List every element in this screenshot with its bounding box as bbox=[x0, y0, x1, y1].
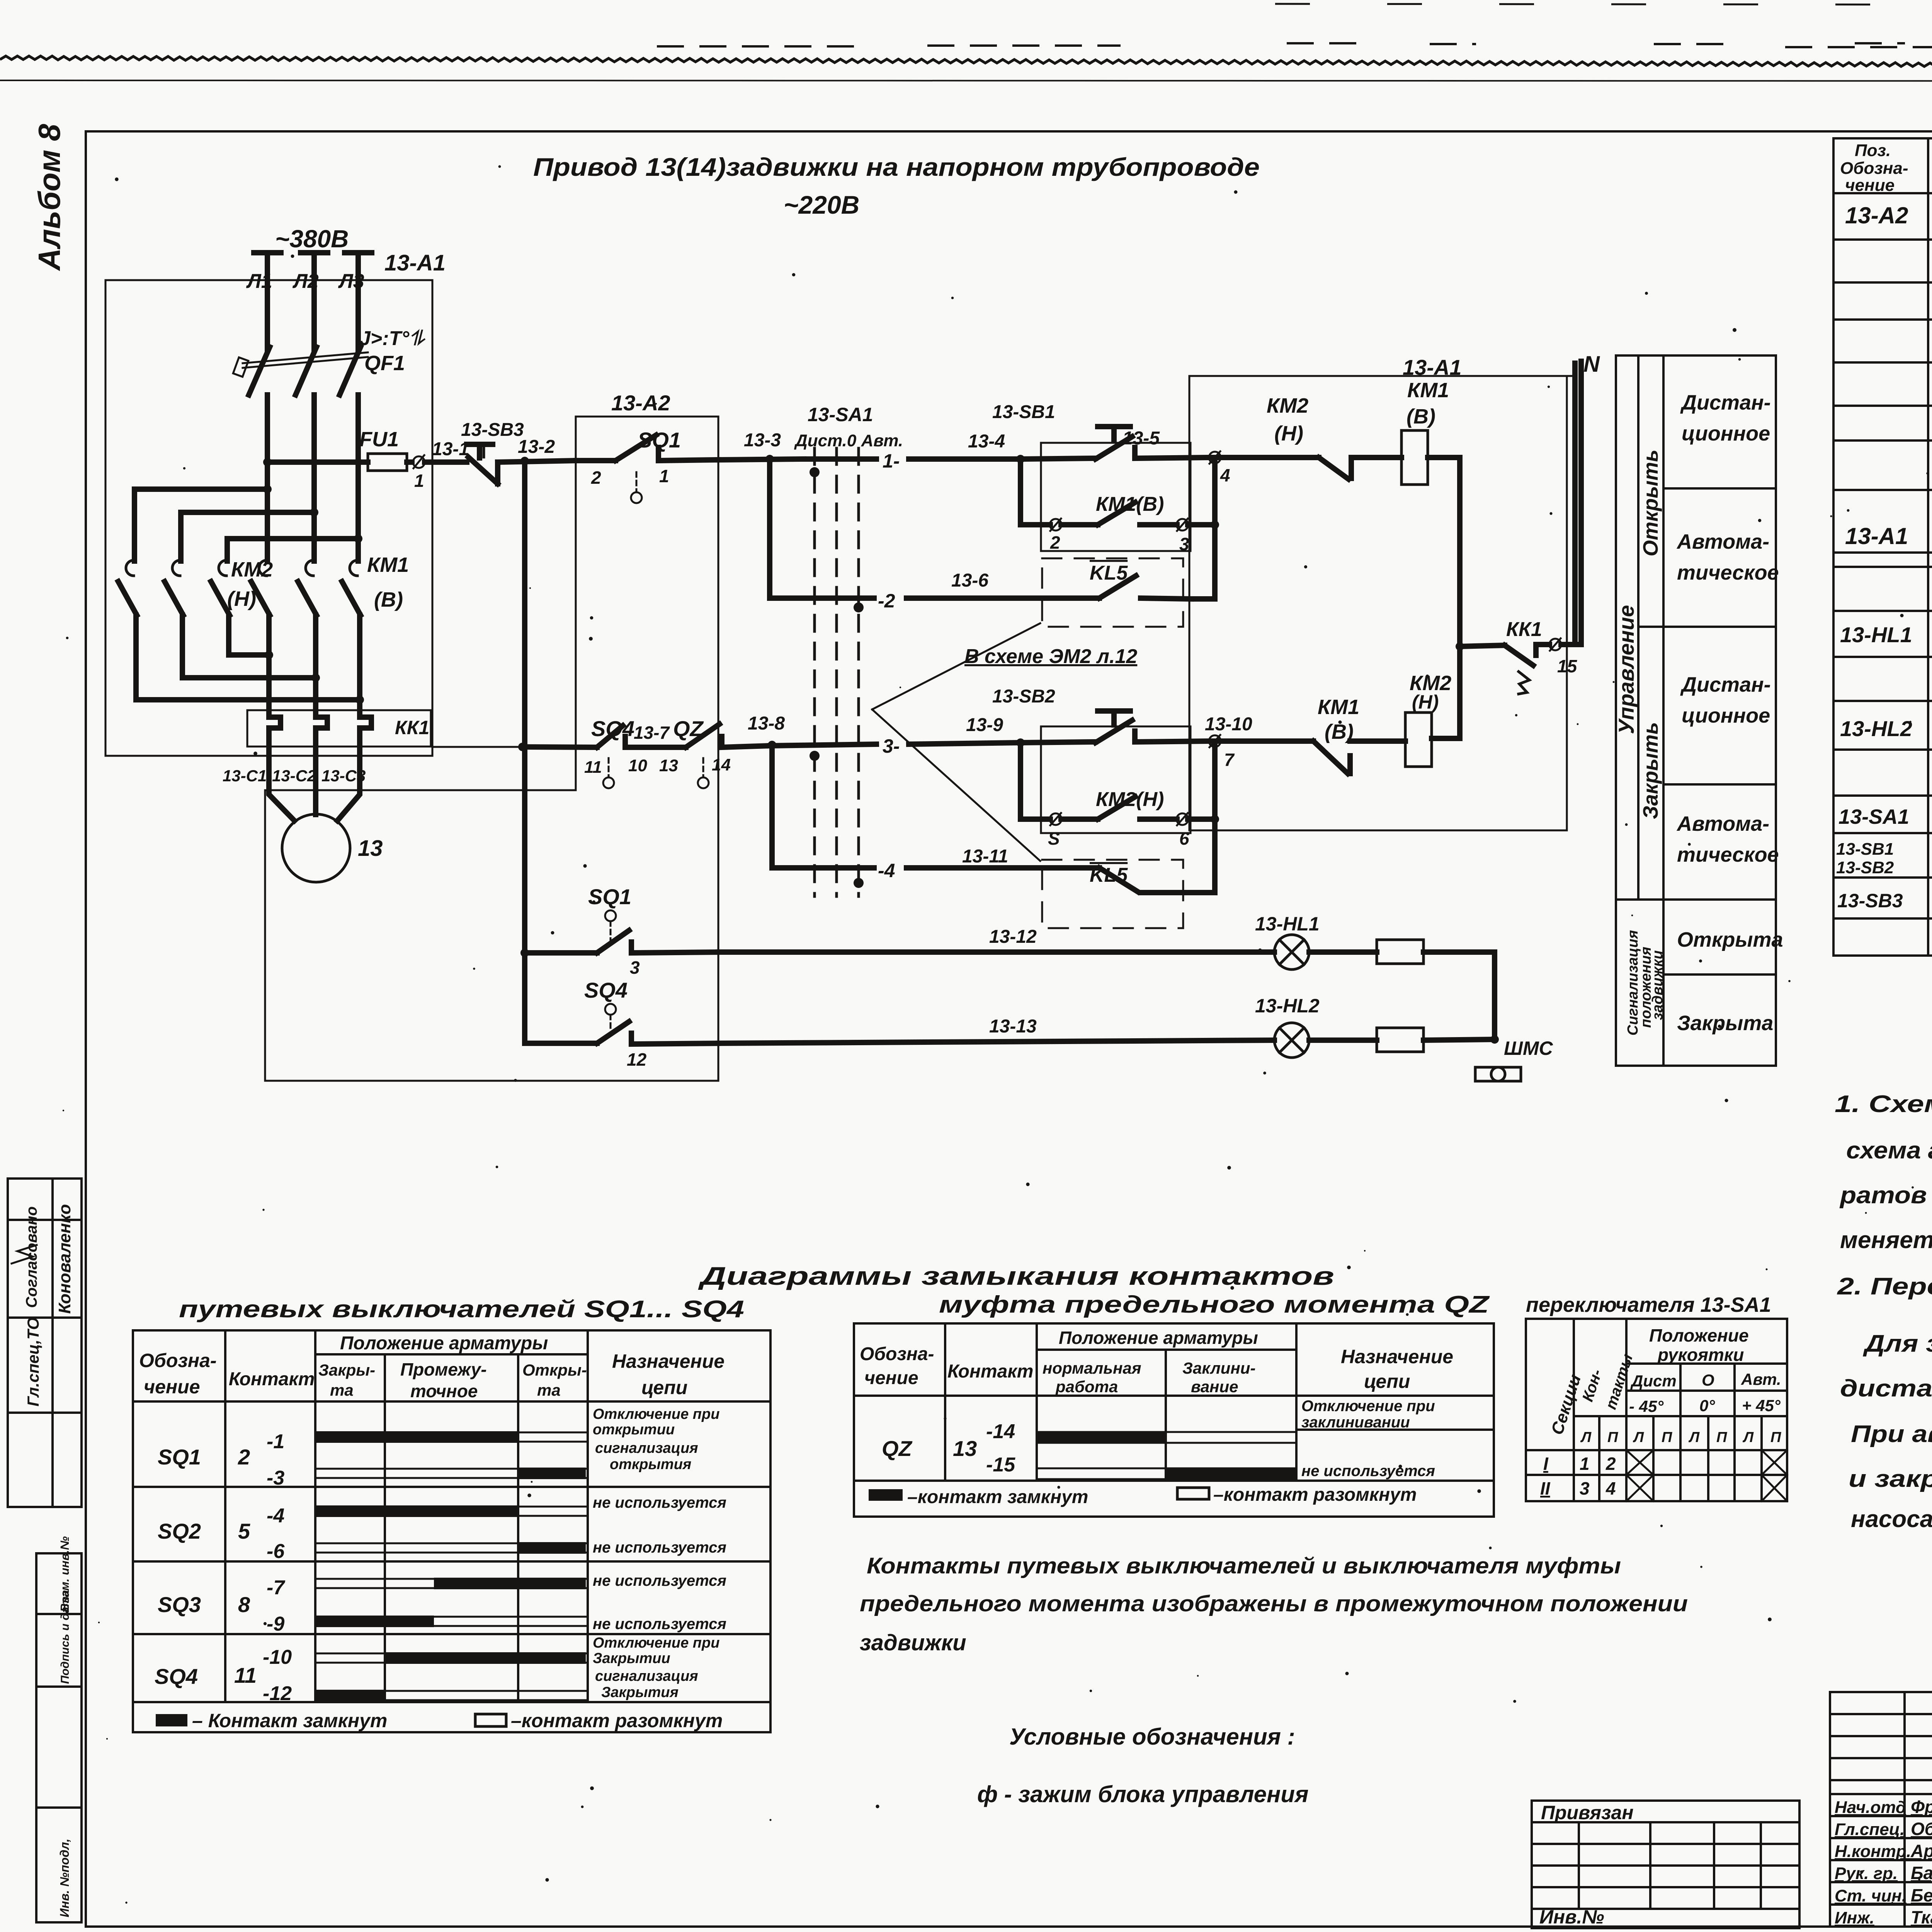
svg-text:Закрыта: Закрыта bbox=[1677, 1012, 1773, 1035]
terminal 1 of block 13-A1 bbox=[413, 456, 425, 468]
svg-text:-15: -15 bbox=[986, 1454, 1015, 1476]
actuator block 13-A2 outline bbox=[265, 417, 718, 1081]
svg-text:ШМС: ШМС bbox=[1504, 1037, 1553, 1059]
svg-text:13-SB2: 13-SB2 bbox=[992, 686, 1055, 707]
svg-text:13-10: 13-10 bbox=[1205, 714, 1252, 735]
svg-text:13-7: 13-7 bbox=[634, 723, 670, 743]
svg-text:~380В: ~380В bbox=[275, 225, 349, 253]
svg-text:дистанционное со шкафа упр: дистанционное со шкафа управления и авто… bbox=[1840, 1375, 1932, 1402]
svg-text:не используется: не используется bbox=[593, 1572, 726, 1589]
svg-text:Л: Л bbox=[1688, 1429, 1700, 1446]
svg-text:Дистан-: Дистан- bbox=[1680, 391, 1771, 414]
svg-text:та: та bbox=[330, 1381, 354, 1399]
svg-text:путевых выключателей S: путевых выключателей SQ1... SQ4 bbox=[179, 1296, 744, 1323]
svg-text:I: I bbox=[1543, 1454, 1549, 1474]
svg-text:муфта предельного момента: муфта предельного момента QZ bbox=[939, 1291, 1490, 1318]
svg-text:П: П bbox=[1770, 1429, 1781, 1446]
svg-text:заклинивании: заклинивании bbox=[1301, 1414, 1410, 1431]
svg-text:задвижки: задвижки bbox=[860, 1630, 966, 1655]
KK1 heater element phase 927 bbox=[360, 710, 371, 747]
svg-text:KL5: KL5 bbox=[1090, 562, 1128, 584]
svg-text:сигнализация: сигнализация bbox=[595, 1440, 698, 1456]
svg-text:13-С2: 13-С2 bbox=[272, 767, 316, 785]
svg-text:13-SA1: 13-SA1 bbox=[808, 404, 873, 425]
svg-text:(В): (В) bbox=[374, 588, 403, 611]
svg-text:та: та bbox=[537, 1381, 561, 1399]
svg-text:10: 10 bbox=[628, 756, 647, 775]
terminal 4 bbox=[1209, 452, 1221, 463]
wire 13-1 bbox=[425, 459, 467, 465]
svg-text:-3: -3 bbox=[267, 1467, 284, 1489]
svg-text:N: N bbox=[1583, 352, 1600, 377]
node 13-4 bbox=[1016, 455, 1025, 463]
wire phase Л3 upper bbox=[355, 253, 361, 350]
block 13-A1 right outline bbox=[1189, 376, 1567, 830]
svg-text:Ст. чин.: Ст. чин. bbox=[1835, 1886, 1906, 1905]
wire drop to circuit 4 bbox=[772, 745, 874, 868]
svg-text:13-А2: 13-А2 bbox=[611, 391, 670, 415]
svg-text:Откры-: Откры- bbox=[522, 1361, 587, 1379]
wire to KM2 NC interlock bbox=[1220, 455, 1319, 460]
wire 13-13 bbox=[718, 1040, 1274, 1043]
svg-text:(Н): (Н) bbox=[1274, 422, 1303, 445]
svg-text:-6: -6 bbox=[267, 1540, 285, 1563]
svg-text:Закрытия: Закрытия bbox=[601, 1684, 679, 1701]
terminal 15 bbox=[1549, 639, 1561, 650]
svg-text:–контакт замкнут: –контакт замкнут bbox=[907, 1487, 1088, 1507]
svg-text:не используется: не используется bbox=[593, 1616, 726, 1633]
wire node to SQ4 bbox=[522, 747, 597, 747]
svg-text:Автома-: Автома- bbox=[1676, 530, 1769, 553]
svg-text:Открыта: Открыта bbox=[1677, 928, 1783, 951]
svg-text:13-SB2: 13-SB2 bbox=[1836, 858, 1894, 877]
svg-text:задвижки: задвижки bbox=[1650, 950, 1666, 1020]
svg-text:-4: -4 bbox=[878, 860, 895, 881]
svg-text:Л3: Л3 bbox=[338, 270, 364, 293]
svg-text:меняется на 14.: меняется на 14. bbox=[1840, 1227, 1932, 1253]
svg-text:Дист.0 Авт.: Дист.0 Авт. bbox=[794, 431, 903, 450]
block 13-A1 (control unit box) bbox=[105, 280, 432, 756]
svg-text:Диаграммы замыкания ко: Диаграммы замыкания контактов bbox=[698, 1262, 1334, 1290]
node SHMS bbox=[1490, 1035, 1499, 1044]
svg-text:0°: 0° bbox=[1699, 1396, 1715, 1415]
svg-text:Ткачева: Ткачева bbox=[1911, 1907, 1932, 1927]
svg-text:2: 2 bbox=[1050, 532, 1060, 553]
svg-text:П: П bbox=[1716, 1429, 1727, 1446]
svg-text:3: 3 bbox=[1580, 1478, 1590, 1498]
wire 13-8 row3 from block bbox=[432, 746, 522, 748]
svg-text:-7: -7 bbox=[267, 1577, 285, 1599]
svg-text:Гл.спец.: Гл.спец. bbox=[1835, 1820, 1905, 1839]
SQ1..SQ4 contact diagram table bbox=[133, 1330, 770, 1732]
svg-text:(В): (В) bbox=[1406, 405, 1435, 428]
svg-text:Привод 13(14)задвижки на нап: Привод 13(14)задвижки на напорном трубоп… bbox=[533, 153, 1260, 181]
svg-text:Альбом 8: Альбом 8 bbox=[32, 124, 66, 271]
svg-text:Инв. №подл,: Инв. №подл, bbox=[58, 1838, 71, 1917]
svg-text:1. Схема приведена для прив: 1. Схема приведена для привода 13. Для п… bbox=[1835, 1091, 1932, 1117]
svg-text:13-С1: 13-С1 bbox=[223, 767, 267, 785]
node 13-9 bbox=[1016, 738, 1025, 747]
wire phases below QF1 bbox=[265, 395, 270, 561]
svg-text:Закры-: Закры- bbox=[318, 1361, 375, 1379]
bus SHMS tap symbol bbox=[1475, 1067, 1521, 1081]
svg-text:Дист: Дист bbox=[1630, 1372, 1677, 1390]
svg-text:Положение арматуры: Положение арматуры bbox=[340, 1333, 548, 1354]
svg-text:Обозна-: Обозна- bbox=[139, 1350, 217, 1371]
wire to KM1 NO interlock bbox=[1220, 738, 1313, 744]
wire 13-12 bbox=[718, 949, 1274, 955]
circuit breaker QF1 bbox=[249, 347, 270, 395]
svg-text:Л: Л bbox=[1742, 1429, 1754, 1446]
SA1 contact dot row1 bbox=[810, 467, 820, 477]
svg-text:+ 45°: + 45° bbox=[1742, 1396, 1781, 1415]
svg-text:–контакт разомкнут: –контакт разомкнут bbox=[1213, 1485, 1417, 1505]
note about contact positions bbox=[860, 1553, 1688, 1655]
svg-text:тическое: тическое bbox=[1677, 843, 1779, 866]
wire 13-2 bbox=[498, 461, 576, 462]
selector switch 13-SA1 (dashed section lines) bbox=[813, 448, 816, 896]
svg-text:чение: чение bbox=[1845, 176, 1895, 195]
svg-text:– Контакт замкнут: – Контакт замкнут bbox=[192, 1710, 387, 1731]
svg-text:Назначение: Назначение bbox=[1341, 1346, 1453, 1367]
contactor KM1 main contacts (V direction) bbox=[259, 560, 267, 576]
vertical tie row1/KL5 bbox=[1191, 457, 1215, 599]
svg-text:переключателя 13-SA1: переключателя 13-SA1 bbox=[1526, 1293, 1771, 1316]
wire KM2 pole2 output to L2 column bbox=[182, 634, 316, 678]
svg-text:Отключение при: Отключение при bbox=[593, 1406, 719, 1422]
svg-text:13-SB3: 13-SB3 bbox=[461, 420, 524, 440]
left stamp column upper box bbox=[8, 1179, 82, 1507]
svg-text:Обозная: Обозная bbox=[1911, 1819, 1932, 1839]
svg-text:5: 5 bbox=[238, 1519, 250, 1543]
vertical tie row3/KL5 lower bbox=[1191, 741, 1215, 893]
svg-text:13-3: 13-3 bbox=[744, 430, 781, 451]
svg-text:При автоматическом управлени: При автоматическом управлении задвижки о… bbox=[1851, 1421, 1932, 1447]
pushbutton 13-SB3 (stop, NC) bbox=[467, 442, 493, 447]
wire circuit 1 through SA1 bbox=[804, 456, 876, 462]
svg-text:Для задвижек предусматривает: Для задвижек предусматривается два вида … bbox=[1862, 1330, 1932, 1357]
note: in diagram EM2 sheet 12 bbox=[872, 623, 1040, 709]
svg-text:открытии: открытии bbox=[593, 1422, 675, 1438]
svg-text:и закрываются от уровня вкл: и закрываются от уровня включения II раб… bbox=[1849, 1466, 1932, 1492]
svg-text:-14: -14 bbox=[986, 1420, 1015, 1443]
svg-text:Управление: Управление bbox=[1614, 605, 1638, 734]
wire KM2 pole1 output to L3 column bbox=[136, 634, 360, 700]
svg-text:Кон-: Кон- bbox=[1579, 1367, 1605, 1403]
svg-text:SQ4: SQ4 bbox=[155, 1664, 198, 1689]
svg-text:J>:T°⥮: J>:T°⥮ bbox=[359, 327, 426, 350]
svg-text:SQ1: SQ1 bbox=[588, 884, 631, 909]
wire KM2 pole3 output to L1 column bbox=[229, 634, 269, 655]
svg-text:Рук. гр.: Рук. гр. bbox=[1835, 1864, 1898, 1883]
svg-text:SQ1: SQ1 bbox=[158, 1445, 201, 1469]
supply terminal Л1 bbox=[254, 250, 281, 255]
svg-text:не используется: не используется bbox=[593, 1494, 726, 1511]
relay contact KL5 (close command, dashed box) bbox=[1042, 860, 1183, 928]
svg-text:13-13: 13-13 bbox=[989, 1016, 1037, 1037]
svg-text:ратов и маркировки цепей, обо: ратов и маркировки цепей, обозначающая н… bbox=[1839, 1182, 1932, 1209]
svg-text:Обозна-: Обозна- bbox=[860, 1344, 934, 1364]
svg-text:14: 14 bbox=[712, 755, 731, 774]
svg-text:2: 2 bbox=[1605, 1454, 1616, 1474]
svg-text:Условные обозначения :: Условные обозначения : bbox=[1009, 1724, 1295, 1750]
svg-text:~220В: ~220В bbox=[784, 190, 859, 219]
svg-text:не используется: не используется bbox=[593, 1539, 726, 1556]
svg-text:13-А2: 13-А2 bbox=[1845, 202, 1908, 228]
svg-text:Гл.спец,ТО: Гл.спец,ТО bbox=[24, 1317, 42, 1406]
svg-text:Контакт: Контакт bbox=[947, 1361, 1033, 1382]
node for SQ1 signal contact bbox=[520, 949, 529, 957]
svg-text:SQ2: SQ2 bbox=[158, 1519, 201, 1543]
wire phase Л1 upper bbox=[265, 253, 270, 350]
terminal 6 bbox=[1177, 813, 1188, 825]
svg-text:12: 12 bbox=[627, 1049, 647, 1070]
svg-text:КК1: КК1 bbox=[1506, 618, 1542, 641]
electric motor 13 bbox=[282, 814, 350, 882]
supply terminal Л3 bbox=[345, 250, 372, 255]
svg-text:Л1: Л1 bbox=[246, 270, 272, 293]
svg-text:Дистан-: Дистан- bbox=[1680, 673, 1771, 696]
svg-text:ф - зажим блока управления: ф - зажим блока управления bbox=[977, 1781, 1308, 1807]
contactor coil KM1 (V) bbox=[1401, 430, 1428, 485]
parts list table bbox=[1833, 138, 1932, 956]
resistor HL1 bbox=[1377, 940, 1423, 964]
QZ torque clutch diagram table bbox=[854, 1323, 1494, 1517]
svg-text:ционное: ционное bbox=[1682, 704, 1770, 727]
small reference box (Privyazan) bbox=[1532, 1801, 1799, 1928]
wire row1 tap to fuse bbox=[267, 459, 368, 465]
wire 13-6 bbox=[906, 595, 1099, 601]
svg-text:ционное: ционное bbox=[1682, 422, 1770, 445]
svg-text:13-4: 13-4 bbox=[968, 431, 1005, 452]
svg-text:II: II bbox=[1540, 1478, 1551, 1498]
svg-text:работа: работа bbox=[1055, 1378, 1118, 1396]
KK1 heater element phase 813 bbox=[316, 710, 327, 747]
svg-text:Заклини-: Заклини- bbox=[1182, 1359, 1255, 1377]
wire phase Л2 upper bbox=[311, 253, 317, 350]
module outline around KM1 aux bbox=[1041, 443, 1190, 551]
SA1 contact dot row3 bbox=[810, 751, 820, 761]
svg-text:Отключение при: Отключение при bbox=[1301, 1398, 1435, 1415]
svg-text:КМ1: КМ1 bbox=[1318, 696, 1359, 719]
main title block bbox=[1830, 1692, 1932, 1929]
svg-text:Л: Л bbox=[1633, 1429, 1644, 1446]
legend: contact closed / open bbox=[156, 1714, 187, 1726]
svg-text:-1: -1 bbox=[267, 1430, 284, 1453]
svg-text:насоса: насоса bbox=[1851, 1506, 1932, 1532]
svg-text:КК1: КК1 bbox=[395, 717, 429, 738]
svg-text:Баруан: Баруан bbox=[1911, 1863, 1932, 1883]
svg-text:Секции: Секции bbox=[1548, 1372, 1585, 1437]
svg-text:В схеме ЭМ2 л.12: В схеме ЭМ2 л.12 bbox=[964, 645, 1137, 668]
svg-text:Закрытии: Закрытии bbox=[593, 1650, 670, 1667]
svg-text:КМ2: КМ2 bbox=[1267, 394, 1308, 417]
left stamp column lower box bbox=[36, 1536, 82, 1922]
svg-text:1: 1 bbox=[659, 466, 669, 486]
svg-text:Подпись и дата: Подпись и дата bbox=[59, 1590, 71, 1684]
supply terminal Л2 bbox=[301, 250, 328, 255]
svg-text:13: 13 bbox=[659, 756, 678, 775]
svg-text:SQ4: SQ4 bbox=[584, 978, 628, 1002]
svg-text:13-6: 13-6 bbox=[951, 570, 988, 591]
svg-text:чение: чение bbox=[864, 1368, 918, 1388]
svg-text:Обозна-: Обозна- bbox=[1840, 159, 1908, 178]
svg-text:11: 11 bbox=[584, 758, 602, 777]
svg-text:П: П bbox=[1662, 1429, 1672, 1446]
svg-text:не используется: не используется bbox=[1301, 1463, 1435, 1480]
svg-text:Закрыть: Закрыть bbox=[1639, 722, 1662, 819]
svg-text:2: 2 bbox=[238, 1445, 250, 1469]
svg-text:-4: -4 bbox=[267, 1505, 284, 1527]
control mode table bbox=[1614, 355, 1783, 1066]
svg-text:4: 4 bbox=[1220, 465, 1230, 485]
svg-text:13-9: 13-9 bbox=[966, 715, 1003, 735]
selector 13-SA1 position table bbox=[1526, 1293, 1787, 1501]
SA1 contact dot row2 bbox=[854, 602, 864, 612]
svg-text:QF1: QF1 bbox=[364, 352, 405, 375]
svg-text:чение: чение bbox=[144, 1376, 200, 1398]
svg-text:13: 13 bbox=[953, 1436, 977, 1461]
svg-text:Коноваленко: Коноваленко bbox=[55, 1204, 74, 1314]
svg-text:Отключение при: Отключение при bbox=[593, 1635, 719, 1651]
resistor HL2 bbox=[1377, 1028, 1423, 1052]
wire coil KM2 to common vertical bbox=[1432, 736, 1460, 741]
svg-text:Авт.: Авт. bbox=[1741, 1370, 1781, 1388]
svg-text:тическое: тическое bbox=[1677, 561, 1779, 584]
svg-text:Назначение: Назначение bbox=[612, 1350, 724, 1372]
svg-text:Инж.: Инж. bbox=[1835, 1908, 1874, 1927]
svg-text:цепи: цепи bbox=[641, 1377, 687, 1398]
node common coils to KK1 bbox=[1456, 642, 1464, 651]
svg-text:–контакт разомкнут: –контакт разомкнут bbox=[511, 1710, 723, 1731]
wire 13-11 bbox=[906, 865, 1063, 871]
wire 13-3 bbox=[718, 459, 804, 460]
thermal relay KK1 bbox=[247, 710, 431, 747]
wire branch to KM1 aux contact bbox=[1020, 459, 1050, 525]
svg-text:13-HL1: 13-HL1 bbox=[1255, 913, 1320, 935]
svg-text:QZ: QZ bbox=[882, 1436, 913, 1461]
svg-text:цепи: цепи bbox=[1364, 1371, 1410, 1392]
svg-text:Л: Л bbox=[1580, 1429, 1592, 1446]
svg-text:(Н): (Н) bbox=[1412, 691, 1439, 713]
svg-text:13-HL2: 13-HL2 bbox=[1840, 716, 1912, 741]
contactor KM2 main contacts (N direction) bbox=[126, 560, 134, 576]
terminal 2 bbox=[1050, 519, 1061, 531]
wire bridge L2 to KM2 pole2 bbox=[181, 512, 314, 561]
svg-text:сигнализация: сигнализация bbox=[595, 1668, 698, 1684]
svg-text:FU1: FU1 bbox=[359, 428, 399, 451]
svg-text:предельного момента изобра: предельного момента изображены в промежу… bbox=[860, 1591, 1688, 1616]
node tap control circuit on L1 bbox=[263, 458, 272, 466]
svg-text:Н.контр.: Н.контр. bbox=[1835, 1842, 1911, 1861]
svg-text:Промежу-: Промежу- bbox=[400, 1359, 487, 1379]
svg-text:1-: 1- bbox=[883, 450, 900, 472]
svg-text:Нач.отд: Нач.отд bbox=[1835, 1798, 1906, 1817]
terminal 5 bbox=[1050, 813, 1061, 825]
relay contact KL5 (open command, dashed box) bbox=[1042, 558, 1183, 627]
wire circuit 3 through SA1 bbox=[770, 744, 876, 746]
motor leads 13-C1 13-C2 13-C3 bbox=[269, 747, 294, 821]
svg-text:открытия: открытия bbox=[610, 1456, 691, 1473]
svg-text:13-С3: 13-С3 bbox=[321, 767, 366, 785]
svg-text:точное: точное bbox=[410, 1381, 478, 1401]
svg-text:SQ3: SQ3 bbox=[158, 1592, 201, 1617]
svg-text:Беликова: Беликова bbox=[1911, 1885, 1932, 1905]
svg-text:Л2: Л2 bbox=[292, 270, 319, 293]
wire circuit 1 resumes bbox=[909, 456, 1020, 462]
node row3 bbox=[768, 741, 776, 749]
svg-text:13-12: 13-12 bbox=[989, 927, 1037, 947]
svg-text:8: 8 bbox=[238, 1592, 250, 1617]
module outline around KM2 aux bbox=[1041, 726, 1190, 833]
svg-text:7: 7 bbox=[1224, 750, 1235, 770]
svg-text:Фролов: Фролов bbox=[1911, 1797, 1932, 1817]
svg-text:Открыть: Открыть bbox=[1639, 449, 1662, 556]
contactor coil KM2 (N) bbox=[1405, 713, 1432, 767]
svg-text:О: О bbox=[1702, 1371, 1714, 1389]
long vertical feeder wire to signal contacts bbox=[522, 461, 527, 1043]
svg-text:13-5: 13-5 bbox=[1122, 428, 1160, 449]
svg-text:рукоятки: рукоятки bbox=[1657, 1345, 1744, 1365]
svg-text:-12: -12 bbox=[263, 1682, 292, 1705]
wire aux to node bbox=[1188, 522, 1215, 527]
svg-text:13-1: 13-1 bbox=[432, 439, 469, 459]
svg-text:Автома-: Автома- bbox=[1676, 812, 1769, 835]
svg-text:13-А1: 13-А1 bbox=[1403, 355, 1462, 379]
svg-text:13-11: 13-11 bbox=[962, 846, 1008, 867]
svg-text:КМ1: КМ1 bbox=[1407, 379, 1449, 402]
wire to N bbox=[1561, 642, 1580, 647]
svg-text:13-А1: 13-А1 bbox=[384, 250, 446, 276]
node row3 feed bbox=[518, 743, 527, 751]
svg-text:1: 1 bbox=[1580, 1454, 1590, 1474]
neutral N line bbox=[1572, 363, 1578, 645]
svg-text:Положение: Положение bbox=[1649, 1325, 1749, 1345]
svg-text:13-HL1: 13-HL1 bbox=[1840, 622, 1912, 647]
svg-text:нормальная: нормальная bbox=[1043, 1359, 1141, 1377]
node row1 / drop to circuit 2 bbox=[765, 455, 774, 463]
svg-text:13-SB3: 13-SB3 bbox=[1837, 890, 1903, 912]
svg-text:13-8: 13-8 bbox=[748, 713, 785, 734]
svg-text:схема аналогична. Цифра 13 в: схема аналогична. Цифра 13 в левой части… bbox=[1846, 1137, 1932, 1164]
svg-text:- 45°: - 45° bbox=[1629, 1397, 1664, 1415]
KK1 heater element phase 692 bbox=[269, 710, 281, 747]
wire drop to circuit 2 bbox=[770, 459, 874, 598]
svg-text:Привязан: Привязан bbox=[1541, 1802, 1634, 1823]
svg-text:1: 1 bbox=[414, 471, 424, 491]
svg-text:3-: 3- bbox=[883, 735, 900, 757]
svg-text:11: 11 bbox=[234, 1663, 257, 1687]
svg-text:13-SB1: 13-SB1 bbox=[992, 402, 1055, 422]
svg-text:Поз.: Поз. bbox=[1855, 141, 1891, 160]
wire to SHMS bbox=[1423, 952, 1495, 1039]
svg-text:S: S bbox=[1048, 828, 1060, 849]
junction node at 13-2 bbox=[520, 457, 529, 465]
svg-text:Инв.№: Инв.№ bbox=[1539, 1906, 1604, 1928]
svg-text:Контакт: Контакт bbox=[229, 1369, 315, 1389]
svg-text:13-2: 13-2 bbox=[518, 437, 555, 457]
svg-text:13-SB1: 13-SB1 bbox=[1836, 840, 1894, 859]
svg-text:13-HL2: 13-HL2 bbox=[1255, 995, 1320, 1017]
svg-text:13-А1: 13-А1 bbox=[1845, 523, 1908, 549]
svg-text:-10: -10 bbox=[263, 1646, 292, 1668]
svg-text:13-SA1: 13-SA1 bbox=[1838, 805, 1909, 828]
svg-text:2. Перечень элементов приведе: 2. Перечень элементов приведен на один п… bbox=[1837, 1273, 1932, 1300]
svg-text:-2: -2 bbox=[878, 590, 895, 612]
svg-text:4: 4 bbox=[1605, 1478, 1616, 1498]
wire coil KM1 to common vertical bbox=[1428, 457, 1460, 738]
SA1 contact dot row4 bbox=[854, 878, 864, 888]
